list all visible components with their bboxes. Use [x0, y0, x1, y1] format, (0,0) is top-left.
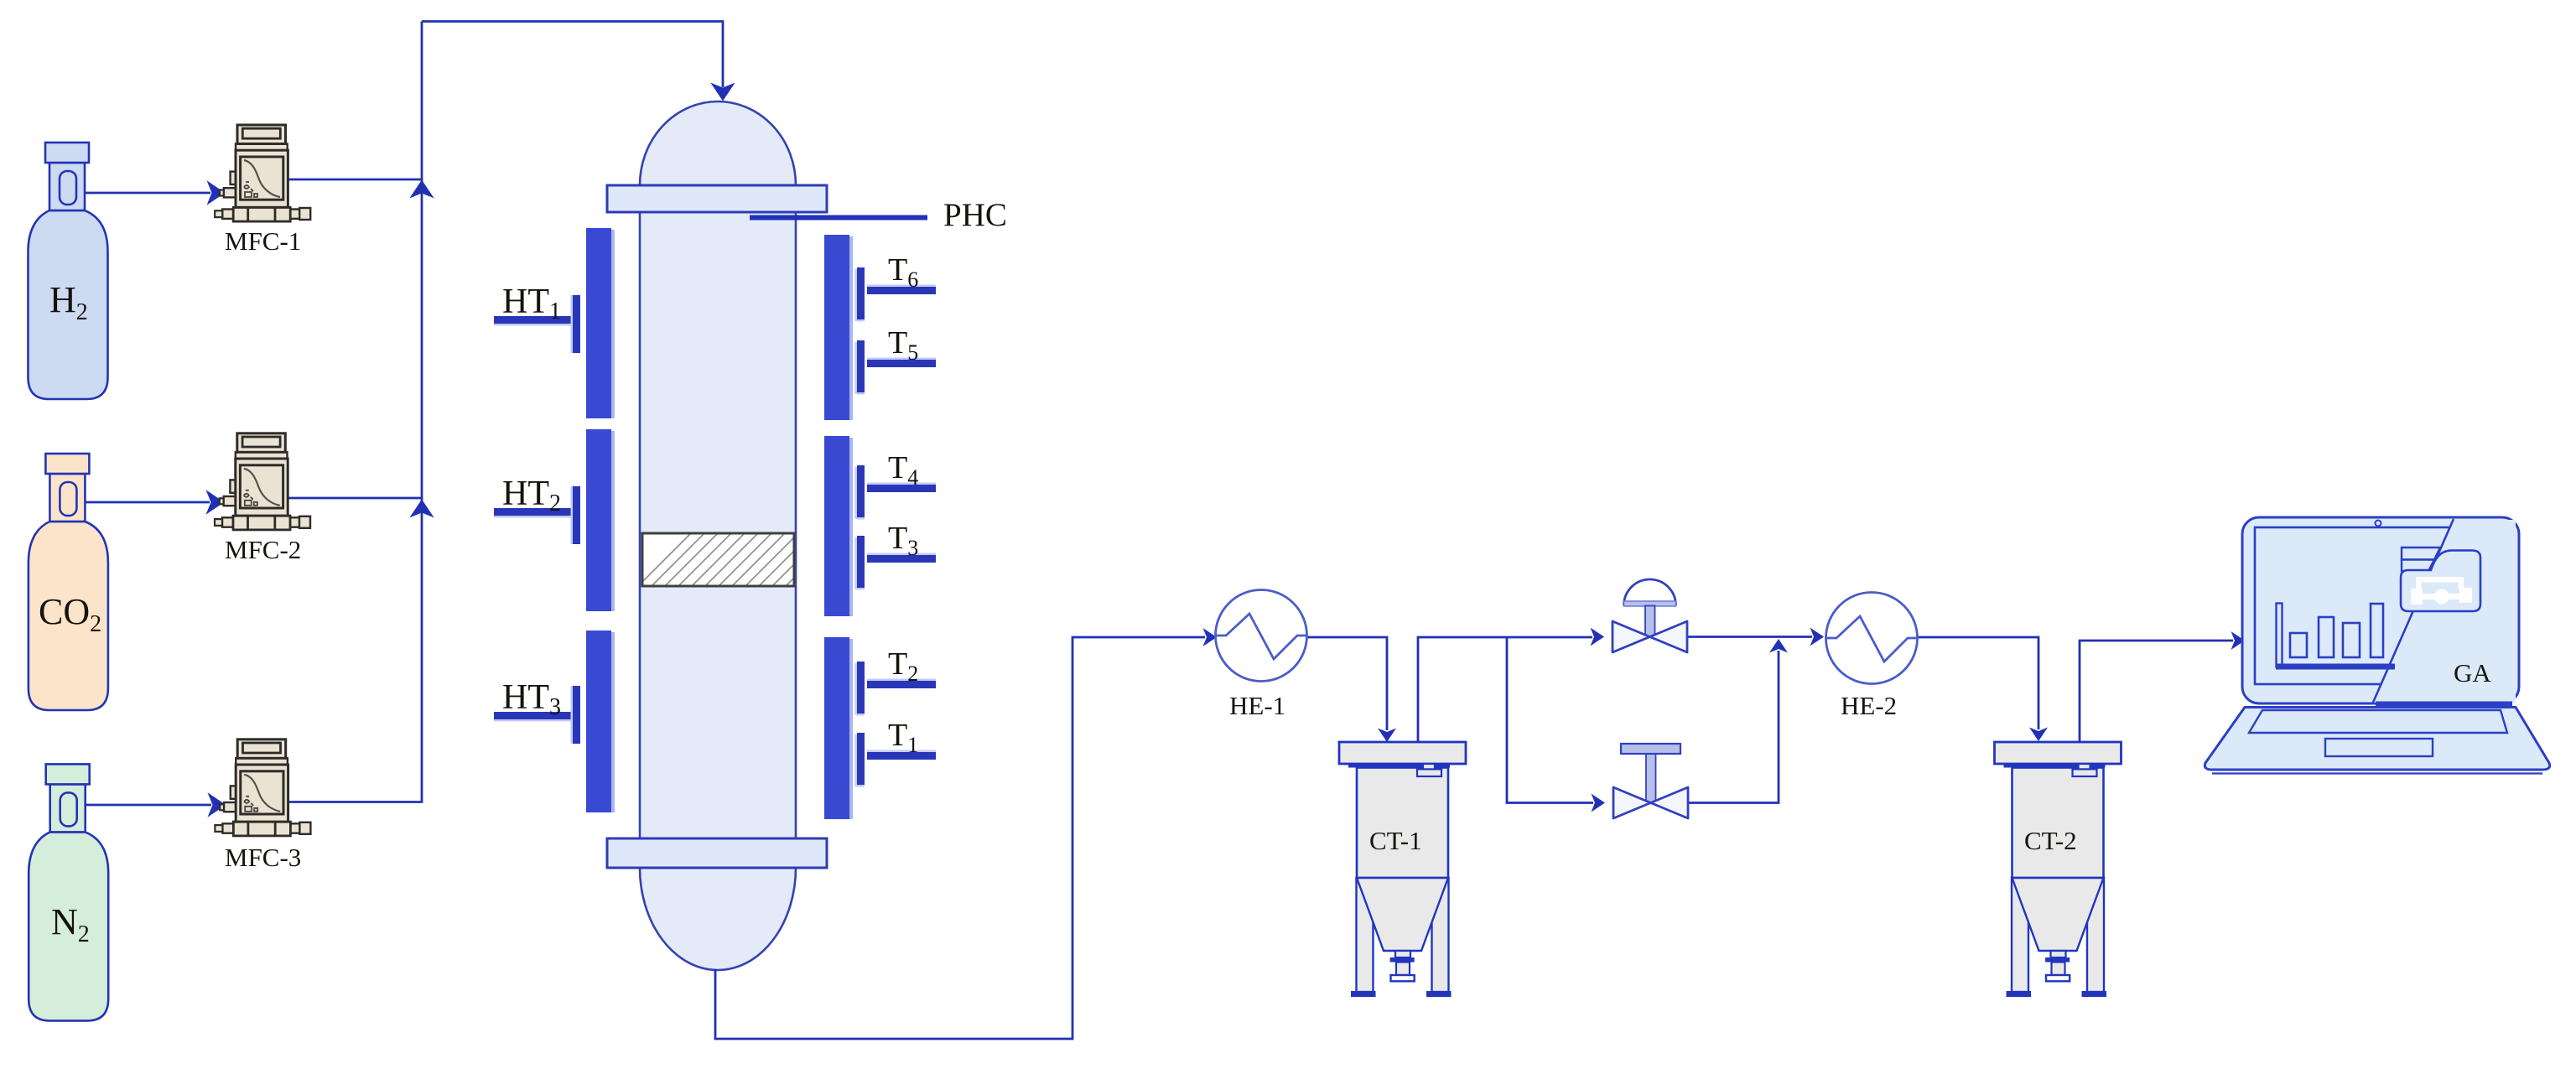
heater jacket right bar 2: [849, 438, 853, 616]
svg-text:CT-2: CT-2: [2024, 826, 2077, 855]
svg-text:T5: T5: [888, 325, 918, 365]
svg-text:T3: T3: [888, 521, 918, 560]
svg-text:HE-2: HE-2: [1841, 691, 1897, 720]
heater jacket left bar 2: [611, 431, 615, 611]
svg-text:T4: T4: [888, 450, 918, 490]
cylinder H2: [29, 143, 108, 399]
catalyst bed (hatched): [642, 533, 794, 586]
reactor top dome: [640, 101, 796, 186]
laptop base: [2205, 708, 2549, 771]
svg-text:GA: GA: [2454, 658, 2491, 688]
wire CO2 to MFC-2: [85, 501, 210, 504]
heat exchanger HE-2: [1826, 593, 1918, 684]
heater lead HT1: [494, 283, 580, 353]
svg-text:MFC-1: MFC-1: [225, 226, 301, 256]
arrow into CT-1: [1378, 729, 1396, 743]
heater jacket left bar 3: [611, 632, 615, 812]
heater jacket right bar 3: [849, 639, 853, 819]
reactor column: [640, 211, 796, 839]
screen inner frame: [2255, 527, 2459, 684]
top flange: [607, 185, 827, 212]
camera dot: [2376, 521, 2381, 527]
svg-text:T6: T6: [888, 252, 918, 292]
junction arrow MFC-1: [413, 182, 431, 196]
cylinder N2: [29, 764, 108, 1020]
svg-text:CT-1: CT-1: [1369, 826, 1422, 855]
svg-text:MFC-3: MFC-3: [225, 843, 301, 872]
junction arrow MFC-2: [413, 501, 431, 516]
HE-1 to CT-1 wire: [1307, 637, 1388, 730]
manifold bus: [421, 22, 423, 802]
heater lead HT2: [494, 475, 580, 544]
wire MFC-3 out: [288, 801, 423, 803]
BPR valve outlet wire: [1687, 636, 1813, 638]
PHC line: [750, 215, 927, 221]
arrow at bypass junction: [1769, 639, 1788, 653]
mass flow controller MFC-2: [215, 433, 310, 530]
branch down to needle valve: [1507, 637, 1593, 803]
wire MFC-2 out: [287, 497, 423, 500]
cylinder CO2: [29, 454, 108, 710]
mass flow controller MFC-1: [215, 125, 310, 221]
laptop screen body: [2242, 517, 2519, 703]
reactor outlet wire: [715, 637, 1205, 1039]
thermocouple T5: [855, 325, 937, 395]
arrow into HE-1: [1203, 628, 1218, 646]
screen fold panel: [2372, 520, 2516, 703]
cold trap CT-2: [1995, 742, 2122, 997]
CT-2 outlet wire to analyzer: [2080, 641, 2233, 741]
heater jacket right bar 1: [849, 236, 853, 420]
thermocouple T2: [855, 646, 937, 716]
arrow into CT-2: [2029, 728, 2048, 742]
svg-text:HE-1: HE-1: [1229, 691, 1285, 720]
heater lead HT3: [494, 678, 580, 744]
arrow into HE-2: [1810, 628, 1825, 646]
wire MFC-1 out: [287, 179, 423, 181]
bottom flange: [607, 838, 827, 868]
heat exchanger HE-1: [1216, 590, 1307, 682]
thermocouple T4: [855, 450, 937, 520]
svg-text:HT1: HT1: [502, 283, 561, 324]
svg-text:MFC-2: MFC-2: [225, 535, 301, 564]
CT-1 outlet wire: [1418, 637, 1592, 741]
folder icon: [2401, 547, 2480, 611]
base bottom rim: [2212, 772, 2542, 774]
svg-text:HT2: HT2: [502, 475, 561, 516]
wire N2 to MFC-3: [86, 804, 211, 807]
cold trap CT-1: [1339, 742, 1466, 997]
wire H2 to MFC-1: [85, 22, 732, 815]
needle valve: [1613, 744, 1688, 818]
svg-text:T1: T1: [888, 718, 918, 757]
svg-text:PHC: PHC: [943, 197, 1007, 233]
mass flow controller MFC-3: [215, 739, 310, 836]
heater jacket left bar 1: [586, 228, 853, 819]
svg-text:T2: T2: [888, 646, 918, 686]
arrow into BPR valve: [1591, 628, 1605, 646]
thermocouple T3: [855, 521, 937, 590]
feed header wire: [422, 22, 723, 88]
HE-2 outlet wire: [1918, 637, 2038, 729]
thermocouple T1: [855, 718, 937, 787]
feed arrow into reactor: [714, 86, 732, 100]
svg-text:HT3: HT3: [502, 678, 561, 720]
reactor bottom dome: [640, 867, 796, 970]
bar chart on screen: [2277, 604, 2395, 670]
arrow into gas analyzer: [2231, 631, 2246, 650]
screen bottom thick edge: [2376, 702, 2512, 707]
needle valve outlet wire: [1688, 651, 1779, 803]
thermocouple T6: [855, 252, 937, 322]
back-pressure regulator valve: [1613, 579, 1687, 652]
arrow into needle valve: [1592, 794, 1606, 812]
